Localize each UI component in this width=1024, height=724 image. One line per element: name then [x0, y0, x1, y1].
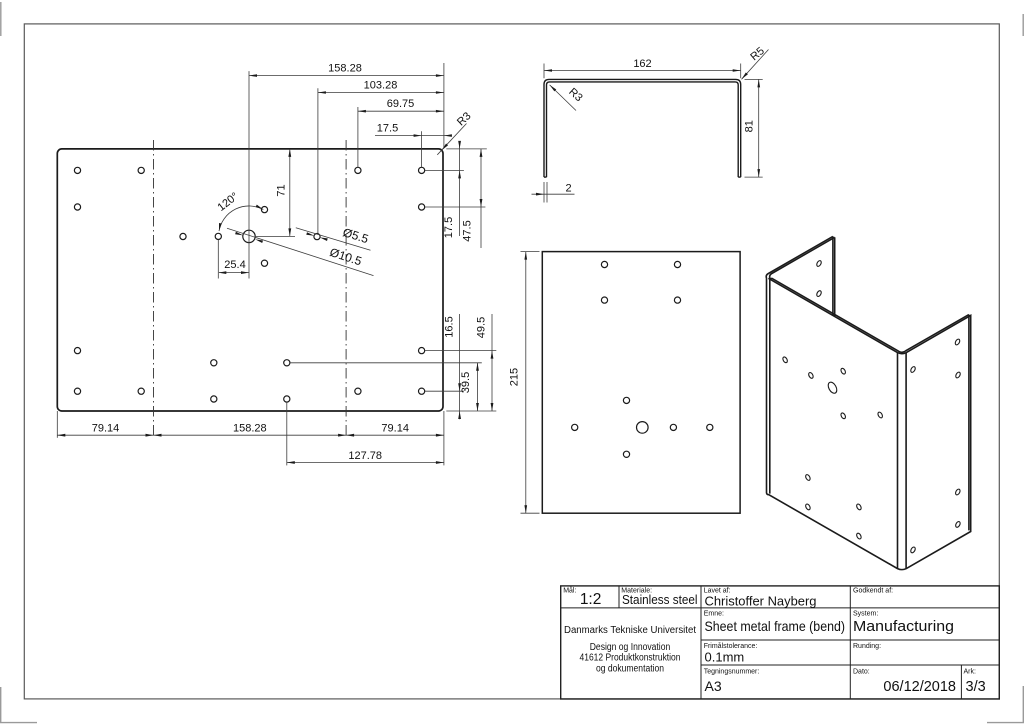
svg-text:3/3: 3/3 — [966, 679, 986, 695]
svg-text:Runding:: Runding: — [853, 643, 881, 650]
svg-text:A3: A3 — [705, 678, 722, 694]
svg-text:47.5: 47.5 — [462, 220, 474, 241]
svg-text:41612 Produktkonstruktion: 41612 Produktkonstruktion — [580, 653, 681, 664]
svg-text:Emne:: Emne: — [704, 610, 724, 617]
svg-text:System:: System: — [853, 610, 878, 617]
svg-text:79.14: 79.14 — [381, 423, 409, 435]
svg-text:162: 162 — [633, 58, 651, 70]
svg-text:R5: R5 — [748, 45, 766, 63]
svg-text:1:2: 1:2 — [580, 591, 602, 608]
svg-text:og dokumentation: og dokumentation — [596, 664, 664, 675]
svg-text:R3: R3 — [455, 110, 473, 128]
svg-text:Design og Innovation: Design og Innovation — [590, 642, 671, 653]
svg-text:215: 215 — [508, 368, 520, 386]
svg-text:81: 81 — [743, 120, 755, 132]
svg-text:Christoffer Nayberg: Christoffer Nayberg — [705, 594, 817, 609]
svg-text:Stainless steel: Stainless steel — [622, 592, 698, 607]
svg-text:69.75: 69.75 — [387, 98, 415, 110]
svg-text:39.5: 39.5 — [460, 372, 472, 393]
svg-text:158.28: 158.28 — [328, 63, 362, 75]
svg-text:Godkendt af:: Godkendt af: — [853, 587, 893, 594]
svg-text:25.4: 25.4 — [224, 259, 245, 271]
svg-text:Manufacturing: Manufacturing — [853, 618, 954, 635]
svg-text:79.14: 79.14 — [92, 423, 120, 435]
svg-text:R3: R3 — [566, 86, 584, 104]
svg-text:158.28: 158.28 — [233, 423, 267, 435]
svg-text:49.5: 49.5 — [476, 317, 488, 338]
svg-text:71: 71 — [276, 184, 288, 196]
svg-text:127.78: 127.78 — [348, 450, 382, 462]
svg-text:Ark:: Ark: — [964, 668, 977, 675]
svg-text:17.5: 17.5 — [377, 123, 398, 135]
svg-text:Sheet metal frame (bend): Sheet metal frame (bend) — [705, 618, 846, 634]
svg-text:16.5: 16.5 — [443, 316, 455, 337]
svg-text:120°: 120° — [215, 190, 240, 213]
svg-text:Tegningsnummer:: Tegningsnummer: — [704, 668, 760, 675]
svg-text:Danmarks Tekniske Universitet: Danmarks Tekniske Universitet — [564, 625, 696, 636]
svg-text:2: 2 — [565, 183, 571, 195]
svg-text:Ø10.5: Ø10.5 — [328, 245, 364, 268]
svg-text:Mål:: Mål: — [563, 586, 576, 594]
svg-text:0.1mm: 0.1mm — [705, 650, 745, 665]
svg-text:06/12/2018: 06/12/2018 — [883, 679, 956, 695]
svg-text:103.28: 103.28 — [364, 79, 398, 91]
svg-text:17.5: 17.5 — [443, 217, 455, 238]
svg-text:Dato:: Dato: — [853, 668, 870, 675]
